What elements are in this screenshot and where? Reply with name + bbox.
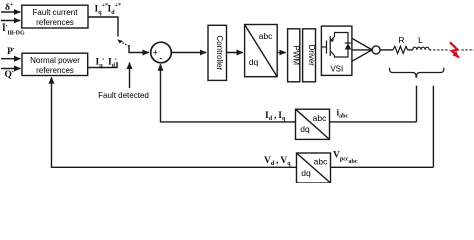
transistor: IGBT inside VSI bbox=[321, 36, 334, 56]
svg-text:Vpccabc: Vpccabc bbox=[333, 151, 358, 166]
block: Driver bbox=[303, 29, 316, 82]
wire: summing junction to controller bbox=[171, 52, 206, 54]
wire: switch pole to summing junction bbox=[129, 45, 149, 53]
svg-text:references: references bbox=[36, 66, 74, 75]
block: Normal power references bbox=[22, 53, 88, 75]
svg-text:Normal power: Normal power bbox=[30, 56, 80, 65]
svg-text:Vd , Vq: Vd , Vq bbox=[264, 156, 291, 167]
wire: voltage feedback horizontal to normal power refs bbox=[52, 78, 434, 168]
svg-text:Iq+*: Iq+* bbox=[95, 3, 108, 16]
wire: arrow into normal power refs bottom bbox=[51, 77, 53, 83]
block: PWM bbox=[288, 29, 300, 82]
svg-text:P•: P• bbox=[7, 46, 15, 57]
wire: normal refs output to switch bottom throw bbox=[88, 62, 117, 68]
block: Controller bbox=[208, 25, 227, 80]
svg-text:references: references bbox=[36, 18, 74, 27]
svg-text:abc: abc bbox=[259, 31, 273, 41]
node: PCC circle bbox=[372, 46, 380, 54]
wire: controller to dq-abc bbox=[227, 52, 243, 54]
wire: dashed line after fault to grid bbox=[462, 49, 474, 51]
block: abc to dq (current feedback) bbox=[296, 109, 330, 139]
inductor L bbox=[413, 47, 429, 50]
wire: dashed line to fault bbox=[429, 49, 449, 51]
wire: P input arrow bbox=[1, 58, 21, 60]
svg-text:dq: dq bbox=[300, 124, 310, 134]
node: summing junction circle bbox=[151, 42, 172, 63]
svg-text:L: L bbox=[418, 35, 423, 45]
svg-text:Id , Iq: Id , Iq bbox=[265, 111, 286, 122]
svg-text:Q•: Q• bbox=[5, 69, 14, 80]
wire: I*IB-DG input arrow bbox=[1, 20, 20, 22]
svg-text:Id+*: Id+* bbox=[108, 3, 121, 16]
wire: current measurement tap (vertical) bbox=[416, 86, 418, 122]
svg-text:abc: abc bbox=[313, 113, 327, 123]
wire: current feedback horizontal to summing riser bbox=[161, 65, 417, 122]
block: abc to dq (voltage feedback) bbox=[297, 153, 331, 183]
svg-text:R: R bbox=[398, 35, 404, 45]
svg-text:VSI: VSI bbox=[330, 65, 343, 74]
fault: red lightning bolt bbox=[450, 42, 459, 57]
svg-text:PWM: PWM bbox=[292, 46, 301, 66]
wire: arrow into summing junction bottom bbox=[160, 64, 162, 70]
wire: voltage measurement tap (vertical) bbox=[432, 86, 434, 168]
svg-text:Controller: Controller bbox=[215, 35, 224, 70]
svg-text:Fault current: Fault current bbox=[33, 8, 79, 17]
wire: dq-abc to PWM bbox=[277, 52, 286, 54]
block: VSI bbox=[321, 26, 352, 75]
svg-text:iabc: iabc bbox=[337, 109, 349, 120]
svg-text:dq: dq bbox=[249, 57, 259, 67]
svg-text:dq: dq bbox=[301, 168, 311, 178]
wire: VSI three-phase outputs converging to node bbox=[352, 38, 372, 50]
svg-text:Fault detected: Fault detected bbox=[98, 91, 149, 100]
block: Fault current references bbox=[22, 5, 88, 28]
wire: delta input arrow bbox=[1, 11, 20, 13]
diode: anti-parallel diode loop inside VSI bbox=[335, 33, 352, 58]
wire: Q input arrow bbox=[1, 68, 21, 70]
svg-text:abc: abc bbox=[314, 157, 328, 167]
block: dq to abc transform (forward path) bbox=[245, 25, 278, 77]
wire: fault detected arrow bbox=[129, 63, 131, 89]
svg-text:-: - bbox=[159, 54, 162, 64]
svg-text:+: + bbox=[153, 49, 158, 59]
wire: node to resistor bbox=[380, 49, 393, 51]
svg-text:Driver: Driver bbox=[307, 45, 316, 67]
resistor R bbox=[393, 46, 408, 53]
wire: resistor to inductor bbox=[408, 49, 413, 51]
switch: dashed arm with arrow (fault selected) bbox=[121, 42, 129, 47]
wire: fault refs output to switch top throw bbox=[88, 17, 118, 37]
brace: measurement underbrace bbox=[390, 68, 444, 77]
